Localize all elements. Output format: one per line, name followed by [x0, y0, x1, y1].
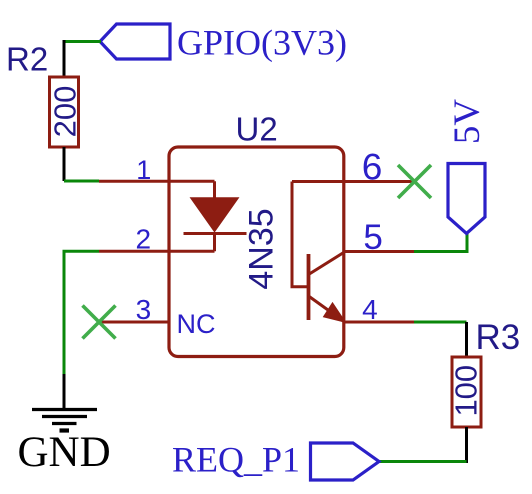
- svg-text:R3: R3: [476, 318, 521, 357]
- collector diagonal: [309, 252, 345, 274]
- svg-text:4N35: 4N35: [243, 208, 281, 289]
- svg-text:5: 5: [363, 218, 382, 257]
- power flag 5V: [448, 164, 485, 234]
- svg-text:200: 200: [47, 86, 82, 138]
- svg-text:R2: R2: [6, 41, 48, 78]
- ground symbol: [32, 410, 97, 431]
- connector flag GPIO(3V3): [100, 24, 170, 59]
- no-connect X at pin 6: [398, 165, 431, 198]
- base bar: [307, 254, 311, 320]
- pin 1 line (anode): [99, 180, 215, 183]
- svg-text:1: 1: [136, 155, 151, 185]
- wire R3 top lead (black): [465, 322, 468, 358]
- pin 3 line (NC): [99, 321, 168, 324]
- svg-text:5V: 5V: [447, 99, 488, 145]
- pin 2 line (cathode): [99, 250, 215, 253]
- wire GND lead (black vertical): [63, 374, 66, 410]
- svg-text:NC: NC: [177, 309, 216, 339]
- svg-text:100: 100: [448, 365, 483, 417]
- optocoupler U2 body box: [169, 147, 344, 357]
- wire R2 top lead (black vertical): [63, 40, 66, 78]
- svg-text:6: 6: [362, 147, 383, 188]
- svg-text:GPIO(3V3): GPIO(3V3): [177, 23, 347, 63]
- wire GPIO to R2 corner (green horizontal): [64, 40, 101, 43]
- emitter arrow: [324, 303, 346, 323]
- svg-text:GND: GND: [18, 429, 111, 476]
- svg-text:U2: U2: [236, 111, 278, 148]
- pin 4 line (emitter): [344, 321, 414, 324]
- phototransistor inside U2: [292, 182, 346, 323]
- pin 6 line (base, NC): [292, 180, 415, 183]
- base wire from pin 6: [292, 182, 307, 287]
- wire pin 2 to GND (green): [64, 251, 99, 374]
- resistor R2 body: [50, 77, 79, 147]
- connector flag REQ_P1: [311, 443, 380, 480]
- wire pin 5 to 5V (green): [414, 233, 467, 252]
- wire R2 to pin 1 (green horizontal): [64, 180, 99, 183]
- resistor R3 body: [452, 357, 481, 427]
- wire R3 to REQ_P1 (green): [379, 460, 467, 463]
- svg-text:REQ_P1: REQ_P1: [172, 440, 300, 480]
- LED diode inside U2: [184, 181, 247, 251]
- no-connect X at pin 3: [83, 306, 116, 339]
- svg-text:4: 4: [362, 294, 378, 325]
- wire R3 bottom lead (black): [465, 427, 468, 463]
- emitter diagonal: [309, 296, 345, 322]
- pin 5 line (collector): [344, 250, 414, 253]
- wire pin 4 to R3 (green): [414, 321, 467, 324]
- wire R2 bottom lead (black vertical): [63, 147, 66, 181]
- svg-text:3: 3: [136, 294, 152, 325]
- svg-text:2: 2: [136, 224, 152, 255]
